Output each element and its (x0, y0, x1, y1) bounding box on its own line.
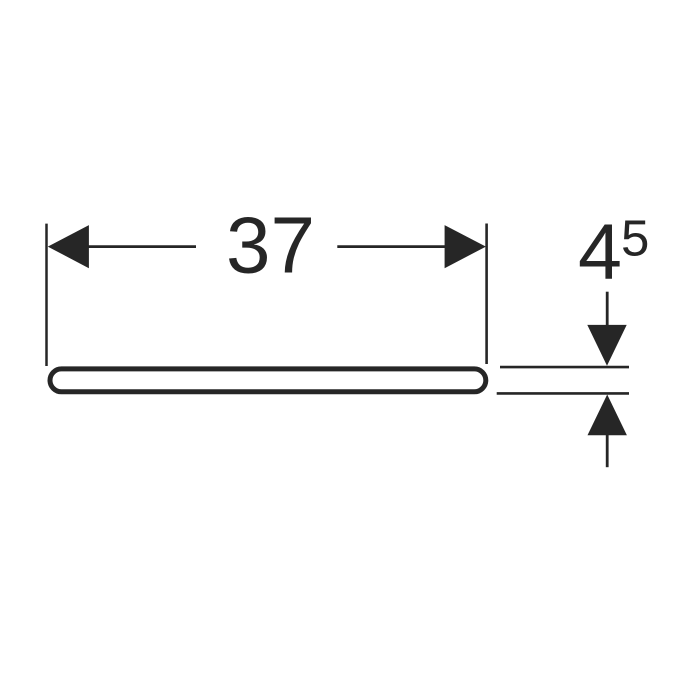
left arrowhead (48, 225, 89, 268)
top reference line (500, 366, 629, 369)
shelf outline (front view, rounded bar) (50, 369, 486, 392)
bottom reference line (497, 392, 629, 395)
vertical dimension line lower segment (606, 431, 609, 467)
vertical dimension line upper segment (606, 292, 609, 330)
left extension line (45, 224, 48, 366)
down arrowhead (587, 325, 626, 366)
right extension line (485, 224, 488, 365)
up arrowhead (588, 395, 627, 436)
right arrowhead (445, 225, 486, 268)
svg-text:4: 4 (578, 207, 622, 296)
svg-text:37: 37 (226, 200, 315, 289)
svg-text:5: 5 (621, 210, 649, 267)
dimension line left segment (60, 245, 196, 248)
dimension line right segment (337, 245, 470, 248)
